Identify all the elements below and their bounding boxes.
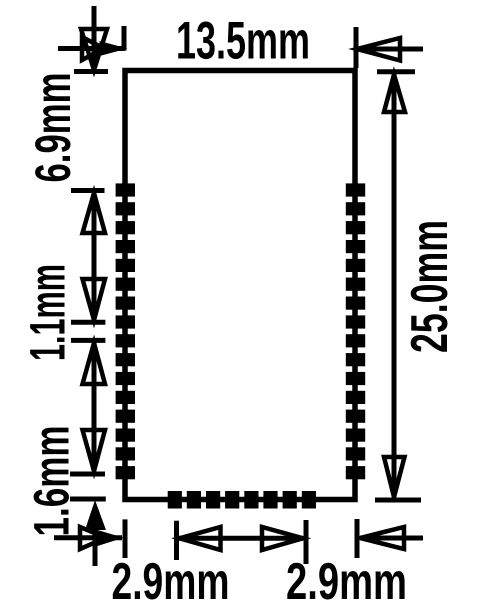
shared leader line between 6.9mm and 1.1mm arrows (92, 193, 97, 320)
dimension 25.0mm top open arrowhead (384, 75, 405, 113)
bottom castellated pads (168, 491, 316, 509)
dimension 13.5mm left filled arrowhead (100, 41, 128, 56)
dimension 1.1mm top tick (71, 320, 105, 325)
label 2.9mm (left) (112, 553, 230, 605)
label 13.5mm (176, 12, 310, 71)
dimension 25.0mm bottom open arrowhead (384, 457, 405, 497)
dimension 1.1mm top open arrowhead (down) (83, 279, 106, 320)
dimension 6.9mm top leader line (92, 6, 97, 68)
svg-text:1.1mm: 1.1mm (20, 264, 76, 361)
svg-text:1.6mm: 1.6mm (24, 426, 80, 537)
label 25.0mm (rotated) (401, 220, 459, 353)
module body outline (125, 71, 355, 500)
label 1.1mm (rotated) (20, 264, 76, 361)
dimension 1.6mm bottom leader line (93, 529, 98, 566)
shared leader line between 1.1mm and 1.6mm arrows (92, 343, 97, 471)
bottom-left 2.9mm inner extension line (first pad) (174, 521, 179, 560)
right castellated pads (346, 183, 365, 479)
bottom-left 2.9mm filled arrowhead (right) (98, 530, 124, 546)
label 2.9mm (right) (286, 553, 407, 605)
dimension 25.0mm dimension line (392, 74, 397, 497)
dimension 25.0mm top tick (377, 69, 415, 74)
bottom-right 2.9mm extension line (module edge) (355, 519, 360, 558)
svg-text:13.5mm: 13.5mm (176, 12, 310, 71)
dimension 6.9mm top tick (74, 69, 108, 74)
dimension 13.5mm right open arrowhead (357, 38, 400, 61)
left castellated pads (116, 183, 135, 479)
dimension 13.5mm left leader line (58, 46, 125, 51)
bottom-right 2.9mm open arrowhead (left) (360, 527, 404, 549)
label 1.6mm (rotated) (24, 426, 80, 537)
bottom-right 2.9mm open arrowhead (right) (262, 527, 303, 550)
dimension 1.6mm bottom tick (70, 497, 106, 502)
dimension 1.1mm bottom tick (71, 338, 105, 343)
label 6.9mm (rotated) (25, 73, 81, 183)
dimension 1.1mm bottom open arrowhead (up) (83, 343, 106, 384)
dimension 1.6mm top tick (70, 472, 105, 477)
dimension 6.9mm bottom open arrowhead (up) (83, 193, 106, 233)
dimension 13.5mm left extension line (122, 26, 127, 51)
svg-text:2.9mm: 2.9mm (112, 553, 230, 605)
bottom-left 2.9mm leader line (54, 535, 122, 540)
bottom-left 2.9mm open arrowhead (left) (180, 527, 221, 550)
dimension 6.9mm top open arrowhead (down) (81, 29, 107, 70)
bottom middle shared leader line (179, 536, 303, 541)
svg-text:25.0mm: 25.0mm (401, 220, 459, 353)
bottom-left 2.9mm open arrowhead (right) (80, 527, 106, 549)
svg-text:2.9mm: 2.9mm (286, 553, 407, 605)
dimension 13.5mm left open arrowhead (82, 37, 104, 60)
bottom-right 2.9mm leader line (360, 536, 423, 541)
dimension 13.5mm right extension line (354, 27, 359, 68)
dimension 25.0mm bottom tick (375, 498, 421, 503)
bottom-left 2.9mm extension line (module edge) (123, 519, 128, 558)
bottom-right 2.9mm inner extension line (last pad) (304, 520, 309, 564)
svg-text:6.9mm: 6.9mm (25, 73, 81, 183)
dimension 1.6mm bottom filled arrowhead (up) (85, 500, 106, 530)
dimension 13.5mm right leader line (357, 47, 423, 52)
dimension 1.6mm top open arrowhead (down) (83, 430, 106, 471)
dimension 6.9mm bottom tick (71, 188, 105, 193)
